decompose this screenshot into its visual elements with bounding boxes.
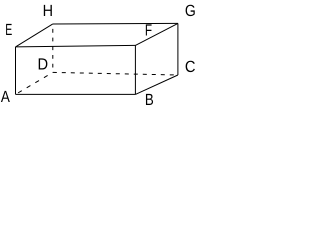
svg-text:F: F [145, 22, 152, 40]
svg-text:G: G [185, 2, 196, 20]
wire edge EF (front top) [16, 45, 136, 47]
wire edge BC (bottom right diagonal) [135, 75, 178, 94]
wire edge HG (back top) [53, 22, 178, 25]
svg-text:C: C [185, 58, 196, 76]
wire edge FG (top right diagonal) [135, 23, 178, 45]
wire edge DH (hidden, dashed) [52, 24, 54, 72]
svg-text:D: D [38, 56, 49, 74]
svg-text:H: H [43, 2, 53, 20]
wire edge AE (front left) [15, 47, 17, 95]
svg-text:B: B [145, 91, 154, 109]
wire edge AD (hidden, dashed) [16, 72, 53, 94]
wire edge FB (front right) [134, 45, 136, 94]
wire edge DC (hidden, dashed) [53, 72, 178, 75]
wire edge EH (top left diagonal) [16, 24, 53, 47]
svg-text:E: E [5, 21, 12, 39]
wire edge AB (front bottom) [16, 93, 136, 95]
cuboid ABCDEFGH diagram [0, 0, 198, 111]
wire edge GC (back right) [177, 23, 179, 75]
svg-text:A: A [1, 88, 10, 106]
